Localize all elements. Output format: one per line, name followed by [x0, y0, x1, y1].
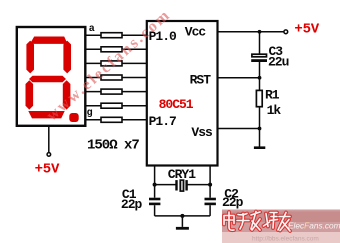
svg-text:+5V: +5V: [35, 161, 60, 177]
svg-text:a: a: [89, 24, 95, 35]
svg-text:P1.7: P1.7: [149, 114, 176, 129]
svg-text:http://bbs.elecfans.com: http://bbs.elecfans.com: [252, 236, 319, 243]
svg-text:CRY1: CRY1: [168, 167, 196, 182]
svg-text:22p: 22p: [121, 197, 143, 212]
svg-text:g: g: [87, 108, 93, 119]
svg-text:ElecFans.com: ElecFans.com: [288, 220, 340, 230]
svg-text:+5V: +5V: [294, 21, 319, 37]
svg-text:RST: RST: [190, 72, 212, 87]
svg-text:Vcc: Vcc: [185, 25, 207, 40]
svg-text:Vss: Vss: [191, 125, 213, 140]
svg-text:22p: 22p: [222, 195, 244, 210]
svg-text:80C51: 80C51: [159, 97, 194, 112]
svg-text:1k: 1k: [267, 103, 282, 118]
svg-text:22u: 22u: [268, 55, 289, 70]
svg-text:R1: R1: [265, 88, 280, 103]
svg-text:150Ω x7: 150Ω x7: [87, 137, 139, 153]
